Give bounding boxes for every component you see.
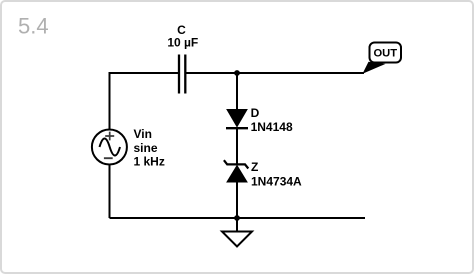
diode D (1N4148) triangle: [227, 110, 247, 127]
voltage source V1 (Vin sine): [92, 130, 127, 165]
wire left vertical lower (source to bottom wire): [109, 164, 111, 218]
wire between diode D and zener Z: [236, 128, 238, 165]
wire bottom horizontal: [110, 217, 366, 219]
ground symbol: [222, 232, 252, 247]
sine waveform: [100, 139, 121, 156]
svg-text:1N4148: 1N4148: [251, 120, 293, 134]
zener Z triangle: [227, 166, 247, 182]
wire left vertical upper (top wire to source): [109, 72, 111, 130]
minus sign: [104, 157, 113, 159]
capacitor C1 plates: [179, 55, 185, 94]
svg-text:D: D: [251, 106, 260, 120]
svg-text:1N4734A: 1N4734A: [251, 174, 302, 188]
svg-text:10 µF: 10 µF: [167, 36, 198, 50]
plus sign: [105, 132, 114, 141]
svg-text:OUT: OUT: [373, 47, 397, 59]
svg-text:Vin: Vin: [134, 127, 152, 141]
junction dot top node: [234, 70, 240, 76]
wire top-left horizontal (source top to capacitor left plate): [110, 72, 180, 74]
wire zener Z to bottom junction: [236, 181, 238, 218]
svg-text:Z: Z: [251, 160, 258, 174]
OUT tag pointer: [363, 62, 386, 74]
junction dot bottom node: [234, 215, 240, 221]
diode D cathode bar: [226, 127, 248, 129]
wire middle vertical (junction to diode D): [236, 72, 238, 110]
ground stub wire: [236, 218, 238, 232]
zener Z (1N4734A) cathode bar with bent ends: [224, 160, 248, 168]
OUT tag box: [370, 43, 402, 63]
svg-text:1 kHz: 1 kHz: [134, 154, 165, 168]
svg-text:5.4: 5.4: [18, 14, 49, 39]
svg-text:sine: sine: [134, 141, 158, 155]
wire top-right horizontal (capacitor right plate to OUT): [185, 72, 364, 74]
